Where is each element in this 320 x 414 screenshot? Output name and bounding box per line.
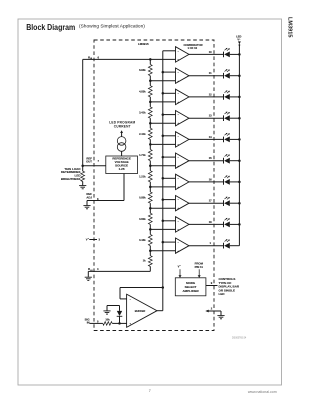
LED 1 light arrows [225,48,227,50]
junction signal column row 9 [162,220,165,223]
junction ladder tap 10 [149,249,152,252]
ground at pin 2 [217,315,224,317]
pin 2 V- wire [205,310,208,313]
wire buffer output [157,310,163,312]
LED 8 light arrows [225,197,227,199]
wire comparator 7 output pin 16 [189,181,224,183]
wire LED 6 anode to rail [230,160,240,162]
LED D4 [223,115,225,121]
junction rail row 2 [238,74,241,77]
wire comparator 5 top input [163,135,176,137]
pin 7 REF OUT wire [83,165,106,167]
svg-text:10: 10 [209,50,212,54]
resistor ladder bottom 1k [149,251,151,256]
junction REF OUT [81,165,84,168]
svg-text:IN: IN [87,321,90,325]
wire ladder tap 10 to comparator 10 [150,250,175,252]
wire LED 5 anode to rail [230,138,240,140]
svg-text:12: 12 [209,92,212,96]
LED 10 light arrows [225,240,227,242]
arrow V+ into mode box [179,269,181,275]
svg-text:BRIGHTNESS: BRIGHTNESS [61,177,81,181]
resistor ladder R6 1.21k [149,166,151,171]
LED D2 [223,73,225,79]
junction ladder tap 6 [149,164,152,167]
comparator U7 [176,174,190,189]
comparator U1 COMPARATOR 1 OF 10 [176,47,190,62]
resistor ladder R3 3.41k [149,102,151,107]
wire left vertical RHI to REF OUT and load [82,59,84,171]
svg-text:11: 11 [209,71,212,75]
svg-text:4.83k: 4.83k [139,89,146,93]
wire comparator 2 top input [163,71,176,73]
ground at RLO [85,276,92,278]
svg-text:LM3915: LM3915 [138,42,149,46]
junction ladder tap 4 [149,122,152,125]
junction signal column row 4 [162,113,165,116]
wire comparator 7 top input [163,177,176,179]
svg-text:CURRENT: CURRENT [114,124,131,128]
svg-text:(Showing Simplest Application): (Showing Simplest Application) [79,24,145,30]
current source arrow [120,130,123,133]
comparator U5 [176,132,190,147]
wire ladder tap 4 to comparator 4 [150,122,175,124]
LED 7 light arrows [225,176,227,178]
svg-text:0.60k: 0.60k [139,217,146,221]
LED D7 [223,179,225,185]
resistor ladder R9 0.43k [149,229,151,234]
resistor ladder R7 0.85k [149,187,151,192]
wire comparator 5 output pin 14 [189,138,224,140]
svg-text:15: 15 [209,156,212,160]
wire current source to reference box [121,151,123,156]
comparator U4 [176,111,190,126]
comparator U8 [176,196,190,211]
junction rail row 4 [238,117,241,120]
ground under load resistor [79,185,86,187]
comparator U10 [176,238,190,253]
junction signal column row 5 [162,135,165,138]
page frame [18,19,282,385]
wire LED 8 anode to rail [230,202,240,204]
wire LED V+ rail [238,44,240,245]
junction buffer feedback [162,286,165,289]
wire ladder tap 6 to comparator 6 [150,165,175,167]
wire LED 3 anode to rail [230,96,240,98]
junction signal column row 6 [162,156,165,159]
junction rail row 6 [238,159,241,162]
wire comparator 10 output pin 1 [189,245,224,247]
current source symbol [117,137,126,146]
svg-text:18: 18 [209,220,212,224]
wire comparator 9 output pin 18 [189,223,224,225]
wire diode to ground [107,305,120,307]
LED 4 light arrows [225,112,227,114]
LED D5 [223,137,225,143]
LED 2 light arrows [225,70,227,72]
resistor ladder R8 0.60k [149,208,151,213]
wire comparator 6 top input [163,156,176,158]
junction ladder tap 7 [149,186,152,189]
wire comparator 8 output pin 17 [189,202,224,204]
junction ladder top RHI tap [149,58,152,61]
wire comparator 4 top input [163,114,176,116]
junction rail row 5 [238,138,241,141]
comparator U6 [176,153,190,168]
svg-text:1.21k: 1.21k [139,174,146,178]
svg-text:www.national.com: www.national.com [248,390,277,394]
comparator U2 [176,68,190,83]
comparator U9 [176,217,190,232]
wire comparator 8 top input [163,199,176,201]
junction ladder tap 2 [149,79,152,82]
svg-text:1.71k: 1.71k [139,153,146,157]
svg-text:1.25: 1.25 [119,167,125,171]
wire comparator 10 top input [163,241,176,243]
junction signal column row 3 [162,92,165,95]
wire comparator 3 output pin 12 [189,96,224,98]
resistor ladder R5 1.71k [149,144,151,149]
wire LED 1 anode to rail [230,53,240,55]
svg-text:13: 13 [209,114,212,118]
resistor input 10k [103,322,112,326]
clamp diode D11 [119,316,121,323]
wire comparator 1 top input [163,50,176,52]
svg-text:Block Diagram: Block Diagram [26,22,75,32]
resistor load (LED brightness) [81,171,85,181]
junction signal input node [118,322,121,325]
junction signal column row 8 [162,198,165,201]
wire comparator 6 output pin 15 [189,160,224,162]
wire comparator 2 output pin 11 [189,75,224,77]
LED D1 [223,52,225,58]
junction signal column row 2 [162,71,165,74]
pin 4 RLO wire [88,270,150,272]
comparator U3 [176,89,190,104]
wire comparator 4 output pin 13 [189,117,224,119]
pin 5 SIG IN wire [90,322,103,324]
svg-text:ADJ: ADJ [86,195,92,199]
wire ladder tap 2 to comparator 2 [150,80,175,82]
svg-text:14: 14 [209,135,212,139]
svg-text:BUFFER: BUFFER [135,309,146,313]
reference voltage source box [106,156,138,174]
wire ladder tap 7 to comparator 7 [150,186,175,188]
svg-text:0.85k: 0.85k [139,196,146,200]
wire LED 2 anode to rail [230,75,240,77]
wire ladder tap 8 to comparator 8 [150,207,175,209]
svg-text:1 OF 10: 1 OF 10 [187,46,197,50]
LED 3 light arrows [225,91,227,93]
junction rail row 7 [238,181,241,184]
svg-text:10k: 10k [105,318,110,322]
junction ladder tap 8 [149,207,152,210]
LED D8 [223,200,225,206]
arrow FROM PIN 11 into mode box [198,269,200,275]
junction rail row 8 [238,202,241,205]
pin 9 mode wire [206,285,218,287]
svg-text:7: 7 [149,389,151,393]
LED D6 [223,158,225,164]
LED D9 [223,222,225,228]
LED 5 light arrows [225,133,227,135]
junction rail row 9 [238,223,241,226]
junction signal column row 7 [162,177,165,180]
junction signal column row 10 [162,241,165,244]
junction rail row 3 [238,96,241,99]
wire signal column from buffer to comparators [162,51,164,288]
wire LED 7 anode to rail [230,181,240,183]
wire ladder tap 5 to comparator 5 [150,143,175,145]
LED 9 light arrows [225,218,227,220]
svg-text:0.43k: 0.43k [139,238,146,242]
junction rail row 1 [238,53,241,56]
wire LED 4 anode to rail [230,117,240,119]
resistor ladder R1 6.83k [149,59,151,64]
pin 8 REF ADJ wire [87,200,124,202]
wire comparator 1 output pin 10 [189,53,224,55]
LED D10 [223,243,225,249]
svg-text:16: 16 [209,177,212,181]
wire buffer feedback loop [120,287,163,289]
svg-text:LM3915: LM3915 [286,17,292,38]
svg-text:3.41k: 3.41k [139,111,146,115]
wire ladder tap 9 to comparator 9 [150,228,175,230]
mode select amplifier box [175,278,206,296]
LED V+ arrow [238,41,241,44]
junction ladder tap 5 [149,143,152,146]
op-amp buffer [127,294,157,327]
svg-text:PIN 11: PIN 11 [195,265,204,269]
junction ladder tap 9 [149,228,152,231]
svg-text:DS005765-24: DS005765-24 [232,337,247,339]
pin 3 V+ stub [89,239,97,241]
wire comparator 9 top input [163,220,176,222]
wire ladder tap 3 to comparator 3 [150,101,175,103]
wire LED 9 anode to rail [230,223,240,225]
svg-text:6.83k: 6.83k [139,68,146,72]
svg-text:2.41k: 2.41k [139,132,146,136]
svg-text:LED: LED [219,292,226,296]
wire comparator 3 top input [163,92,176,94]
svg-text:17: 17 [209,199,212,203]
LED 6 light arrows [225,155,227,157]
wire rail bottom corner to LED 10 anode [230,245,240,247]
LED D3 [223,94,225,100]
ground at clamp diode [103,310,110,312]
svg-text:AMPLIFIER: AMPLIFIER [183,289,200,293]
IC boundary dashed box LM3915 [94,40,214,331]
resistor ladder R4 2.41k [149,123,151,128]
resistor ladder R2 4.83k [149,81,151,86]
pin 6 RHI wire [83,58,176,60]
svg-text:OUT: OUT [86,160,92,164]
ground at REF ADJ [83,205,90,207]
junction ladder tap 3 [149,101,152,104]
